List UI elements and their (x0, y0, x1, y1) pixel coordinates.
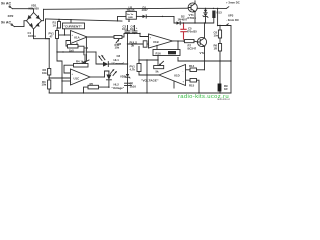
wire U1B inverting input (128, 43, 144, 45)
resistors R2 R3 left column (48, 39, 50, 69)
box R16 (153, 50, 180, 56)
svg-text:47: 47 (50, 34, 54, 38)
svg-text:1R: 1R (214, 46, 218, 50)
svg-text:10k: 10k (42, 83, 47, 87)
svg-text:radio-kits.uc: radio-kits.uc (217, 98, 231, 100)
svg-text:1N4007: 1N4007 (178, 17, 188, 21)
svg-text:R16: R16 (156, 51, 162, 55)
op-amp U1D (mirrored) (159, 65, 186, 86)
wire x128 column (127, 33, 129, 74)
pot box CURRENT (70, 20, 72, 23)
svg-text:KBL005: KBL005 (29, 7, 40, 11)
capacitor C5 (red) (180, 23, 186, 39)
transistor VT2 (197, 37, 206, 46)
terminal XP1 (10, 7, 13, 9)
svg-text:1u16: 1u16 (130, 84, 137, 88)
zener VD2 (205, 8, 206, 9)
svg-text:1000u: 1000u (28, 34, 36, 38)
svg-text:U1A: U1A (74, 36, 80, 40)
wire +out (217, 8, 218, 9)
wire terminal2 to bridge left (15, 21, 27, 27)
svg-text:4007: 4007 (142, 8, 149, 12)
svg-text:9v AC: 9v AC (1, 21, 11, 25)
resistor R14 (190, 68, 197, 72)
wire x57/x62 (57, 52, 62, 93)
svg-text:R15: R15 (189, 84, 195, 88)
resistor PV1 (57, 28, 59, 31)
bottom rail (49, 92, 231, 94)
wire right column (226, 26, 231, 62)
svg-text:3k: 3k (131, 44, 135, 48)
op-amp U1C (71, 69, 91, 85)
svg-text:Vin Vo: Vin Vo (127, 14, 134, 16)
terminal XP2 (12, 25, 15, 27)
svg-text:BC547: BC547 (188, 47, 197, 51)
transistor VT1 (188, 3, 197, 12)
svg-text:+ 3mm DC: + 3mm DC (226, 1, 240, 5)
+raw rail top (44, 8, 192, 9)
terminal -out (218, 24, 229, 26)
wire U1B out (173, 40, 185, 42)
LED HL2 (106, 75, 111, 80)
pot R11 on wire (114, 36, 122, 39)
LED HL1 (103, 62, 108, 67)
op-amp U1A (71, 31, 88, 44)
wire U1D input chain upper (197, 69, 205, 71)
resistor R9 shunt (218, 84, 222, 92)
svg-text:XP3: XP3 (228, 14, 234, 18)
svg-text:U1C: U1C (74, 77, 80, 81)
wire bridge right corner up to +rail (42, 9, 44, 20)
wire gnd rail drop (46, 19, 50, 39)
wire y52 (57, 51, 84, 53)
wire y52 right + LED1 drop (96, 52, 103, 64)
svg-text:1A: 1A (53, 23, 57, 27)
wire PV1 tap to U1A + (59, 34, 71, 36)
svg-text:"VOLTAGE": "VOLTAGE" (141, 79, 159, 83)
wire down from +rail (217, 8, 219, 25)
wire reg out run (174, 16, 214, 23)
capacitor C2 (84, 50, 86, 55)
svg-text:R8: R8 (118, 42, 122, 46)
wire y75 (139, 74, 159, 76)
node dot R1 top (58, 19, 59, 20)
resistor R12 input (143, 41, 147, 47)
gnd rail y19 (46, 19, 123, 21)
wire U1A out (87, 36, 114, 38)
pot R10 voltage (154, 66, 164, 69)
svg-text:10k: 10k (115, 46, 120, 50)
node dot current box (70, 19, 71, 20)
svg-text:10n: 10n (214, 33, 219, 37)
svg-text:VT2: VT2 (200, 51, 206, 55)
svg-text:U1B: U1B (153, 40, 159, 44)
rail y62 output (178, 60, 231, 62)
svg-text:1R: 1R (224, 87, 228, 91)
wire caps node (122, 33, 149, 37)
op-amp U1B (149, 34, 173, 48)
resistor R13 (213, 8, 214, 9)
wire current box wiper (64, 29, 66, 35)
svg-text:- 3mm DC: - 3mm DC (226, 18, 239, 22)
svg-text:R14: R14 (189, 64, 195, 68)
svg-text:"Current": "Current" (112, 62, 125, 66)
svg-text:10k: 10k (42, 71, 47, 75)
wire HL2 top (105, 71, 109, 77)
op-amp input polarity marks (72, 34, 185, 84)
bridge rectifier VD1 (27, 13, 42, 30)
svg-text:XP2: XP2 (8, 14, 14, 18)
svg-text:5k: 5k (156, 70, 160, 74)
resistor R15 (190, 79, 197, 83)
svg-text:4,7k: 4,7k (130, 68, 136, 72)
wire y60 (139, 59, 158, 61)
svg-text:"CURRENT": "CURRENT" (64, 25, 83, 29)
wire sense drop (219, 61, 221, 84)
svg-text:9v AC: 9v AC (1, 2, 11, 6)
resistor R feedback (68, 45, 79, 49)
svg-text:KT815: KT815 (188, 16, 197, 20)
resistor R1 (58, 19, 60, 21)
wire R2R3 tap to U1C (49, 77, 70, 79)
wire U1C out (90, 76, 105, 78)
svg-text:"Voltage": "Voltage" (112, 86, 125, 90)
capacitor C7 (125, 83, 132, 85)
wire x147 (146, 60, 148, 93)
wire bridge bottom to gnd run (34, 29, 50, 39)
regulator gnd stub (118, 16, 130, 21)
svg-text:U1D: U1D (174, 74, 180, 78)
wire out down to pot R4 (85, 37, 87, 50)
wire Q1 emitter run to Q2 collector (204, 23, 206, 38)
svg-text:470n/35: 470n/35 (187, 29, 198, 33)
wire PV1 bottom down (56, 39, 58, 53)
wire terminal1 to bridge top (13, 9, 34, 13)
resistor R7 base (185, 40, 195, 43)
